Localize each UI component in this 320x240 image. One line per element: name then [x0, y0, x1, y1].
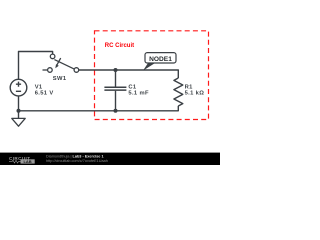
node label NODE1 callout tail — [143, 63, 155, 70]
svg-text:http://circuitlab.com/c/7ovofe: http://circuitlab.com/c/7ovofeE1Uaah — [46, 159, 108, 163]
wire: bottom rail from ground junction to R1 bottom — [19, 106, 179, 111]
capacitor C1 — [104, 70, 126, 111]
svg-text:5.1 kΩ: 5.1 kΩ — [185, 91, 205, 97]
svg-text:RC Circuit: RC Circuit — [105, 43, 134, 49]
ground — [12, 118, 25, 126]
svg-text:6.51 V: 6.51 V — [35, 91, 54, 97]
svg-text:5.1 mF: 5.1 mF — [128, 91, 149, 97]
wire: SW1 common to node/top rail and down to R1 — [79, 70, 179, 78]
node label NODE1 box — [145, 53, 176, 63]
voltage source V1 — [10, 79, 27, 96]
switch SW1 — [43, 54, 79, 72]
svg-text:SW1: SW1 — [53, 76, 67, 82]
resistor R1 — [174, 78, 183, 106]
RC Circuit dashed enclosure box — [95, 31, 209, 120]
svg-text:LAB: LAB — [23, 159, 31, 164]
junction dot at node (C1 tap) — [114, 68, 118, 72]
footer bar — [0, 153, 220, 165]
junction dot at V1/ground/rail — [17, 109, 21, 113]
junction dot at C1 bottom — [114, 109, 118, 113]
footer logo LAB box — [21, 159, 35, 163]
svg-text:NODE1: NODE1 — [149, 56, 172, 63]
wire: V1 bottom down to ground — [18, 96, 20, 118]
footer logo wire + zigzag — [9, 160, 21, 163]
wire: V1 top up and over to SW1 top throw — [19, 52, 53, 81]
